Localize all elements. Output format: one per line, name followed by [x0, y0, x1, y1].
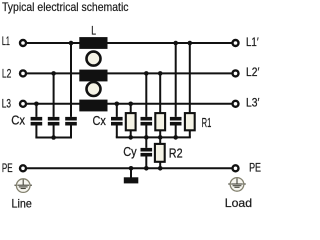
- svg-text:R2: R2: [169, 146, 183, 161]
- svg-text:L: L: [91, 23, 96, 37]
- svg-text:L2: L2: [2, 66, 12, 80]
- svg-text:Load: Load: [225, 196, 252, 210]
- svg-text:L1′: L1′: [246, 35, 259, 49]
- svg-text:L2′: L2′: [246, 65, 260, 79]
- svg-text:PE: PE: [249, 160, 261, 174]
- svg-text:L1: L1: [2, 34, 10, 48]
- svg-text:Typical electrical schematic: Typical electrical schematic: [2, 0, 129, 14]
- svg-text:Cy: Cy: [123, 144, 137, 159]
- svg-text:PE: PE: [2, 161, 13, 175]
- svg-text:Cx: Cx: [93, 113, 107, 128]
- svg-text:L3′: L3′: [246, 95, 260, 109]
- svg-text:Cx: Cx: [11, 112, 25, 127]
- svg-text:R1: R1: [202, 115, 212, 130]
- svg-text:Line: Line: [12, 196, 33, 210]
- svg-text:L3: L3: [2, 97, 11, 111]
